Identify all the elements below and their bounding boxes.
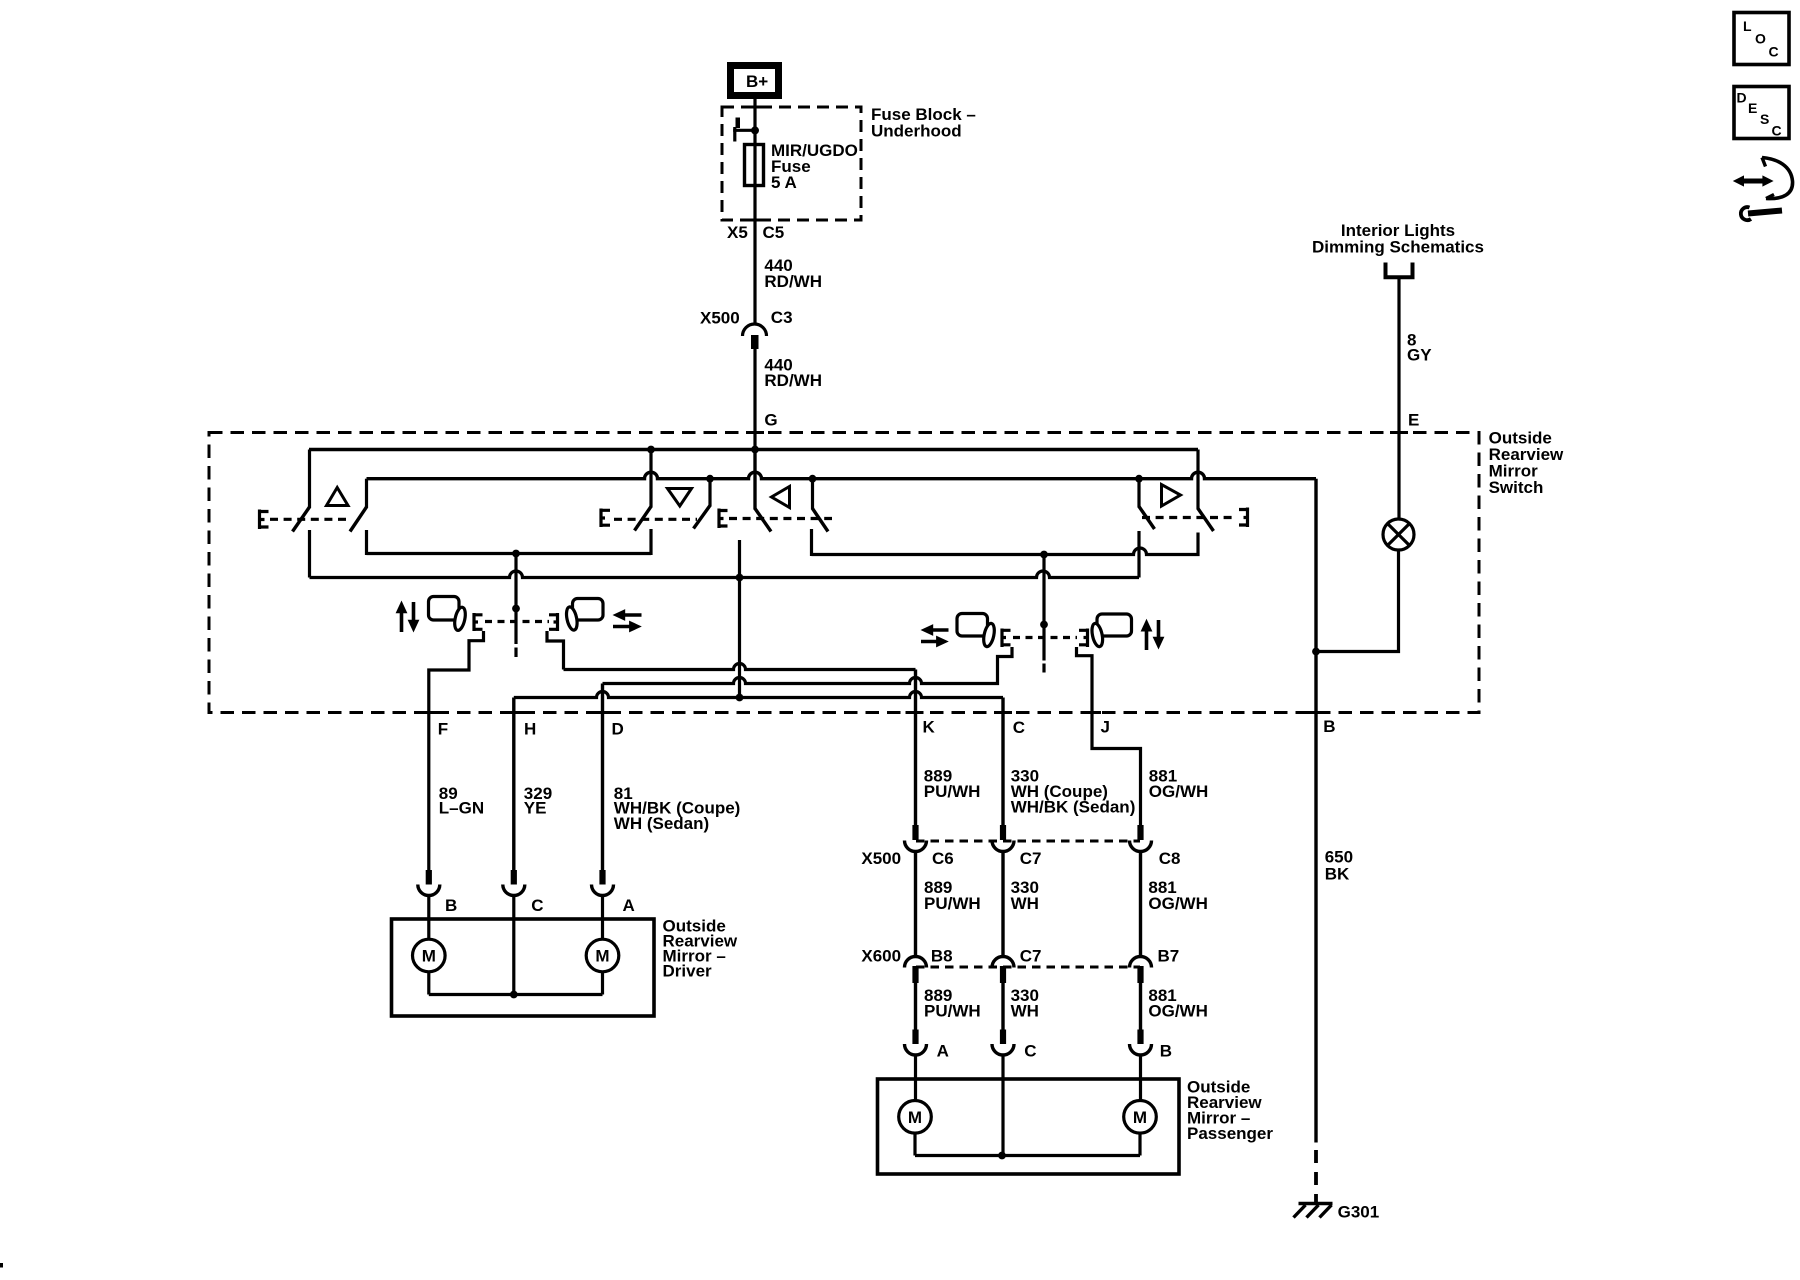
fuse MIR/UGDO 5 A [745, 141, 858, 192]
svg-text:M: M [595, 947, 609, 966]
svg-text:BK: BK [1325, 865, 1350, 884]
driver mirror motor M (left) [413, 939, 446, 972]
outside rearview mirror switch dashed box [209, 433, 1479, 713]
svg-text:WH (Sedan): WH (Sedan) [614, 814, 709, 833]
svg-text:Underhood: Underhood [871, 122, 962, 141]
passenger mirror box [878, 1079, 1180, 1174]
inner bus wire with hops [367, 472, 1317, 479]
svg-text:D: D [1737, 90, 1747, 106]
svg-text:OG/WH: OG/WH [1148, 1002, 1208, 1021]
mech linkage dashed line (up switch) [270, 518, 349, 521]
down switch right pole contact [708, 479, 711, 507]
wire lamp to B wire [1316, 550, 1399, 652]
svg-text:X500: X500 [700, 309, 740, 328]
mech linkage bracket E (left/right group) [719, 509, 728, 529]
wire 8 GY label [1407, 331, 1432, 365]
up switch right pole contact [365, 479, 368, 508]
svg-text:C6: C6 [932, 849, 954, 868]
right switch right pole contact [1196, 450, 1199, 510]
svg-text:J: J [1101, 718, 1110, 737]
svg-text:C5: C5 [763, 223, 785, 242]
node on inner bus at right switch left pole [1135, 475, 1143, 483]
driver mirror terminal letters B C A [445, 896, 635, 915]
connector X5 C5 labels [727, 223, 784, 242]
left arrow triangle symbol [772, 487, 790, 508]
svg-text:F: F [438, 720, 448, 739]
up switch right blade [350, 507, 367, 532]
up switch left blade [293, 507, 310, 532]
fuse block label [871, 105, 976, 141]
wire 881 OG/WH label (lower) [1148, 986, 1208, 1021]
svg-text:G301: G301 [1338, 1203, 1380, 1222]
down arrow triangle symbol [668, 489, 692, 507]
wires between X600 and passenger mirror [916, 983, 1141, 1031]
passenger mirror connector pins [912, 1030, 1143, 1045]
wire 889 PU/WH label (middle) [924, 878, 981, 913]
mech linkage bracket E (down switch) [601, 509, 611, 528]
driver mirror box label [663, 917, 738, 981]
svg-text:RD/WH: RD/WH [764, 371, 822, 390]
passenger mirror motor M (right) [1124, 1101, 1157, 1134]
driver selector left contact bracket [474, 613, 483, 631]
svg-text:PU/WH: PU/WH [924, 1002, 981, 1021]
svg-text:PU/WH: PU/WH [924, 894, 981, 913]
passenger mirror box label [1187, 1078, 1273, 1144]
wires from cups into driver mirror box [429, 896, 603, 995]
in-line connector X500 C3 [700, 308, 793, 349]
node on B wire at lamp branch [1312, 648, 1320, 656]
wire K down to X500 [914, 670, 917, 826]
up arrow triangle symbol [327, 488, 349, 506]
driver selector right contact bracket [549, 613, 558, 631]
switch box label [1489, 429, 1564, 498]
wire line1 selector-right to K with hop [564, 664, 916, 670]
passenger selector linkage dashes [1013, 636, 1077, 639]
wire 889 PU/WH label (lower) [924, 986, 981, 1021]
down switch left blade [635, 507, 652, 531]
node on inner bus at left switch right pole [809, 475, 817, 483]
svg-text:C3: C3 [771, 308, 793, 327]
terminal letters on switch box bottom [438, 717, 1336, 739]
inner lower bus (right) with hop [812, 533, 1199, 555]
bus tap symbol inside fuse block [733, 118, 755, 142]
passenger mirror internal common link [915, 1133, 1140, 1155]
svg-text:C: C [1769, 44, 1779, 60]
driver left/right arrows [613, 609, 642, 632]
wire line3 H common line with hops [514, 692, 1003, 698]
battery terminal B+ [731, 66, 779, 96]
wire B+ to fuse [753, 99, 756, 323]
svg-text:Driver: Driver [663, 962, 713, 981]
junction node at tap [751, 126, 759, 134]
svg-text:B8: B8 [931, 947, 953, 966]
wires between X500 and X600 [916, 852, 1141, 959]
fuse block underhood dashed box [722, 107, 861, 220]
right arrow triangle symbol [1162, 485, 1181, 507]
down switch left pole lower stub [649, 529, 652, 555]
driver selector pivot node [512, 605, 520, 613]
svg-text:OG/WH: OG/WH [1148, 894, 1208, 913]
wire 8 GY from dimming schematics [1397, 279, 1400, 520]
connector row X500 labels [861, 849, 1180, 868]
svg-text:B: B [1323, 717, 1335, 736]
down switch left pole contact [649, 450, 652, 508]
wire 89 L-GN label [439, 784, 484, 818]
svg-text:X5: X5 [727, 223, 748, 242]
interior lights dimming schematics label [1312, 221, 1484, 257]
passenger selector pivot node [1040, 621, 1048, 629]
dimming lamp symbol [1383, 519, 1414, 550]
wire 330 WH label (lower) [1011, 986, 1039, 1021]
svg-text:RD/WH: RD/WH [764, 272, 822, 291]
driver mirror internal common link [429, 972, 603, 995]
passenger selector left contact bracket [1002, 629, 1011, 648]
wire 81 label [614, 784, 741, 833]
connector row X600 caps [905, 957, 1152, 968]
svg-text:5 A: 5 A [771, 173, 797, 192]
passenger mirror terminal letters A C B [937, 1042, 1172, 1061]
svg-text:O: O [1755, 31, 1766, 47]
svg-text:B: B [1160, 1042, 1172, 1061]
ground symbol G301 [1294, 1204, 1333, 1218]
svg-text:YE: YE [524, 799, 547, 818]
svg-text:GY: GY [1407, 346, 1432, 365]
inner lower bus (left) [367, 552, 652, 555]
svg-text:C8: C8 [1159, 849, 1181, 868]
passenger mirror connector cups [905, 1044, 1152, 1055]
passenger selector common wire [1042, 555, 1045, 661]
right switch left pole lower stub to lower bus [1137, 531, 1140, 578]
connector row X500 cups [905, 841, 1152, 852]
node common feed on outer lower bus [736, 574, 744, 582]
common center contact wire [738, 540, 741, 698]
passenger mirror motor M (left) [899, 1101, 932, 1134]
left switch left blade [755, 509, 771, 532]
passenger selector blade tip dash [1042, 664, 1045, 673]
left switch right pole contact [811, 479, 814, 510]
node on top bus at feed [751, 446, 759, 454]
wire 440 RD/WH to switch [753, 349, 756, 510]
node passenger selector tap [1040, 551, 1048, 559]
wire C down to X500 [1001, 698, 1004, 826]
connector row X600 pins [912, 966, 1143, 983]
connector row X600 dashed line [916, 966, 1140, 969]
svg-text:C: C [531, 896, 543, 915]
svg-text:E: E [1408, 411, 1419, 430]
off-page bracket [1384, 263, 1415, 278]
up switch left pole lower stub [308, 530, 311, 578]
svg-text:L: L [1743, 18, 1752, 34]
wire 330 label (upper) [1011, 767, 1136, 817]
wire D down to driver mirror [601, 684, 604, 871]
passenger mirror icon (right) [1090, 614, 1131, 648]
svg-text:D: D [612, 720, 624, 739]
driver selector left contact to F staircase [429, 631, 484, 870]
svg-text:L–GN: L–GN [439, 799, 484, 818]
up switch right pole lower stub [365, 530, 368, 555]
tick where wire crosses fuse box bottom [746, 219, 764, 222]
node on inner bus at down switch right pole [706, 475, 714, 483]
outer lower bus with hops [310, 571, 1140, 577]
connector row X500 dashed line [916, 840, 1140, 843]
right switch left pole contact [1137, 479, 1140, 508]
svg-text:C: C [1024, 1042, 1036, 1061]
svg-text:M: M [422, 947, 436, 966]
svg-text:C7: C7 [1020, 849, 1042, 868]
driver selector common wire [514, 554, 517, 645]
svg-text:WH: WH [1011, 1002, 1039, 1021]
driver selector blade tip dash [514, 648, 517, 658]
down switch right blade [694, 506, 711, 529]
driver mirror icon (left) [429, 597, 468, 632]
passenger mirror icon (left) [957, 614, 996, 648]
wires from cups into passenger mirror box [916, 1055, 1141, 1156]
wire 329 YE label [524, 784, 552, 818]
right switch left blade [1139, 507, 1155, 530]
svg-text:WH/BK (Sedan): WH/BK (Sedan) [1011, 798, 1136, 817]
svg-text:OG/WH: OG/WH [1149, 782, 1209, 801]
mech linkage dashed line (down switch) [614, 518, 697, 521]
svg-text:B: B [445, 896, 457, 915]
passenger left/right arrows [921, 624, 949, 647]
wire 889 PU/WH label (upper) [924, 767, 981, 802]
connector row X500 pins [912, 825, 1143, 840]
node driver selector tap [512, 550, 520, 558]
driver selector right contact staircase [547, 631, 564, 670]
svg-text:WH: WH [1011, 894, 1039, 913]
dashed ground lead [1314, 1150, 1318, 1203]
svg-text:A: A [937, 1042, 949, 1061]
driver mirror connector pins [426, 870, 606, 885]
wire B / 650 BK down right side [1314, 479, 1317, 1143]
wire H down to driver mirror [512, 698, 515, 871]
node driver mirror common [510, 991, 518, 999]
svg-text:A: A [623, 896, 635, 915]
wire line2 D to passenger selector left contact with hops [603, 647, 1013, 684]
svg-text:G: G [764, 411, 777, 430]
up switch left pole contact [308, 450, 311, 509]
svg-text:C: C [1013, 718, 1025, 737]
connector row X600 labels [861, 947, 1179, 966]
driver up/down arrows [396, 601, 420, 633]
wire 650 BK label [1325, 848, 1353, 884]
svg-text:X600: X600 [861, 947, 901, 966]
pointer / wrench icon [1733, 158, 1793, 221]
svg-text:H: H [524, 720, 536, 739]
svg-text:Switch: Switch [1489, 478, 1544, 497]
node common feed to line3 [736, 694, 744, 702]
svg-text:E: E [1748, 100, 1757, 116]
mech linkage dashed line (right switch) [1142, 516, 1237, 519]
driver mirror motor M (right) [586, 939, 619, 972]
svg-text:PU/WH: PU/WH [924, 782, 981, 801]
node on top bus at down switch [647, 446, 655, 454]
driver mirror box [392, 919, 655, 1016]
svg-text:K: K [923, 718, 936, 737]
svg-text:S: S [1760, 111, 1769, 127]
svg-text:C: C [1772, 123, 1782, 139]
passenger up/down arrows [1141, 619, 1165, 650]
wire 881 OG/WH label (middle) [1148, 878, 1208, 913]
svg-text:X500: X500 [861, 849, 901, 868]
tick where wire crosses fuse box top [746, 106, 764, 109]
mech linkage dashed line (left switch) [729, 517, 832, 520]
top bus wire [309, 448, 1198, 451]
svg-text:B7: B7 [1158, 947, 1180, 966]
driver selector linkage dashes [485, 620, 549, 623]
passenger selector right contact to J staircase [1077, 647, 1141, 825]
left switch left pole contact (feed) [753, 450, 756, 510]
mech linkage bracket E (up/down group) [259, 510, 269, 530]
page corner speck [0, 1263, 3, 1268]
node passenger mirror common [998, 1152, 1006, 1160]
mech linkage end bracket (left/right group) [1239, 508, 1248, 528]
driver mirror icon (right) [565, 599, 603, 632]
wire 440 RD/WH label (lower) [764, 356, 822, 391]
left switch right pole lower stub [810, 529, 813, 556]
right switch right blade [1198, 509, 1214, 532]
left switch right blade [813, 509, 829, 532]
svg-text:C7: C7 [1020, 947, 1042, 966]
LOC icon box [1734, 13, 1789, 65]
svg-text:Dimming Schematics: Dimming Schematics [1312, 238, 1484, 257]
wire 330 WH label (middle) [1011, 878, 1039, 913]
svg-text:M: M [908, 1108, 922, 1127]
DESC icon box [1734, 87, 1789, 139]
svg-text:M: M [1133, 1108, 1147, 1127]
svg-text:Passenger: Passenger [1187, 1124, 1273, 1143]
passenger selector right contact bracket [1079, 629, 1088, 648]
wire 440 RD/WH label (upper) [764, 256, 822, 291]
svg-text:B+: B+ [746, 72, 768, 91]
tick marks where wires cross switch box border [420, 433, 1408, 713]
driver mirror connector cups [418, 884, 614, 895]
wire 881 OG/WH label (upper) [1149, 767, 1209, 802]
